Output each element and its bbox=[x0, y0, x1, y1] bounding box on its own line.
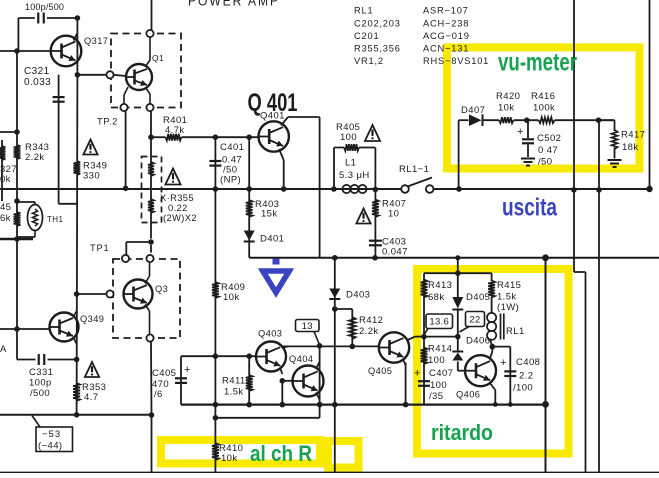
svg-text:1.5k: 1.5k bbox=[497, 292, 517, 303]
svg-text:(−44): (−44) bbox=[38, 441, 62, 452]
svg-text:0.047: 0.047 bbox=[382, 247, 408, 258]
svg-text:(1W): (1W) bbox=[497, 302, 519, 313]
svg-text:+: + bbox=[500, 357, 507, 369]
svg-text:R414: R414 bbox=[428, 344, 452, 355]
svg-text:+: + bbox=[184, 364, 191, 376]
svg-text:R411: R411 bbox=[222, 376, 246, 387]
svg-text:RHS−8VS101: RHS−8VS101 bbox=[423, 56, 489, 66]
svg-text:Q403: Q403 bbox=[258, 329, 282, 339]
svg-text:/50: /50 bbox=[538, 157, 552, 168]
svg-text:2.2k: 2.2k bbox=[359, 326, 379, 337]
svg-text:Q1: Q1 bbox=[152, 53, 164, 63]
svg-text:/6: /6 bbox=[154, 389, 163, 400]
svg-text:X·R355: X·R355 bbox=[160, 193, 194, 203]
svg-text:0.033: 0.033 bbox=[24, 77, 51, 88]
svg-text:45: 45 bbox=[0, 202, 11, 213]
svg-text:al ch R: al ch R bbox=[250, 441, 312, 466]
svg-text:10k: 10k bbox=[221, 453, 238, 464]
svg-text:R420: R420 bbox=[496, 91, 520, 102]
svg-text:13.6: 13.6 bbox=[429, 317, 449, 328]
svg-text:A: A bbox=[0, 344, 7, 355]
svg-text:/35: /35 bbox=[429, 391, 443, 402]
svg-text:Q317: Q317 bbox=[84, 36, 108, 46]
svg-text:vu-meter: vu-meter bbox=[498, 49, 577, 77]
svg-text:VR1,2: VR1,2 bbox=[354, 56, 384, 66]
svg-text:ritardo: ritardo bbox=[431, 420, 493, 445]
svg-text:13: 13 bbox=[302, 321, 313, 332]
svg-text:RL1: RL1 bbox=[354, 6, 373, 16]
svg-text:0k: 0k bbox=[0, 174, 11, 185]
svg-text:D405: D405 bbox=[466, 292, 490, 303]
svg-text:100: 100 bbox=[430, 380, 447, 391]
svg-text:C401: C401 bbox=[220, 142, 244, 153]
svg-text:/500: /500 bbox=[30, 388, 50, 399]
svg-text:5.3 μH: 5.3 μH bbox=[339, 170, 370, 181]
svg-text:0 47: 0 47 bbox=[538, 145, 558, 156]
svg-text:D407: D407 bbox=[461, 105, 485, 116]
svg-text:R415: R415 bbox=[497, 280, 521, 291]
svg-text:R355,356: R355,356 bbox=[354, 43, 401, 53]
svg-text:D406: D406 bbox=[466, 336, 490, 347]
svg-text:ACG−019: ACG−019 bbox=[423, 31, 470, 41]
svg-text:100: 100 bbox=[340, 132, 357, 143]
svg-text:10: 10 bbox=[388, 209, 399, 220]
svg-text:18k: 18k bbox=[622, 142, 639, 153]
svg-text:R417: R417 bbox=[621, 130, 645, 141]
svg-text:D403: D403 bbox=[346, 290, 370, 301]
svg-text:100p: 100p bbox=[29, 378, 52, 389]
svg-text:C502: C502 bbox=[537, 133, 561, 144]
svg-text:C202,203: C202,203 bbox=[354, 18, 401, 28]
svg-text:ACH−238: ACH−238 bbox=[423, 18, 469, 28]
svg-text:C407: C407 bbox=[429, 368, 453, 379]
svg-text:100: 100 bbox=[428, 355, 445, 366]
svg-text:TP1: TP1 bbox=[90, 243, 109, 253]
svg-text:RL1: RL1 bbox=[506, 326, 525, 337]
svg-text:2.2k: 2.2k bbox=[25, 152, 45, 163]
svg-text:Q401: Q401 bbox=[260, 111, 285, 122]
svg-text:0.22: 0.22 bbox=[168, 203, 188, 213]
svg-text:15k: 15k bbox=[261, 209, 278, 220]
svg-text:TH1: TH1 bbox=[47, 215, 63, 224]
svg-text:Q349: Q349 bbox=[80, 314, 104, 324]
svg-text:ACN−131: ACN−131 bbox=[423, 43, 469, 53]
svg-text:Q404: Q404 bbox=[289, 354, 313, 364]
svg-text:+: + bbox=[517, 126, 524, 138]
svg-text:C408: C408 bbox=[516, 357, 540, 368]
svg-text:4.7k: 4.7k bbox=[165, 125, 185, 136]
svg-text:Q406: Q406 bbox=[456, 390, 480, 400]
svg-text:R412: R412 bbox=[359, 315, 383, 326]
svg-text:ASR−107: ASR−107 bbox=[423, 6, 469, 16]
svg-text:uscita: uscita bbox=[502, 194, 558, 222]
svg-text:Q3: Q3 bbox=[155, 284, 168, 294]
svg-text:+: + bbox=[414, 368, 421, 380]
svg-text:2.2: 2.2 bbox=[519, 371, 533, 382]
svg-text:C405: C405 bbox=[152, 368, 176, 379]
svg-text:68k: 68k bbox=[428, 292, 445, 303]
svg-text:100k: 100k bbox=[533, 103, 555, 114]
svg-text:TP.2: TP.2 bbox=[97, 117, 118, 127]
svg-text:RL1−1: RL1−1 bbox=[399, 164, 429, 175]
svg-text:(2W)X2: (2W)X2 bbox=[163, 213, 197, 223]
svg-text:(NP): (NP) bbox=[220, 175, 241, 186]
svg-text:−53: −53 bbox=[42, 429, 61, 440]
svg-text:10k: 10k bbox=[498, 103, 515, 114]
svg-text:R416: R416 bbox=[531, 91, 555, 102]
svg-text:4.7: 4.7 bbox=[84, 392, 98, 403]
svg-text:Q405: Q405 bbox=[368, 366, 392, 376]
svg-text:POWER AMP: POWER AMP bbox=[188, 0, 280, 9]
svg-text:22: 22 bbox=[469, 314, 480, 325]
svg-text:10k: 10k bbox=[223, 292, 240, 303]
svg-text:R413: R413 bbox=[428, 280, 452, 291]
svg-text:L1: L1 bbox=[345, 158, 356, 169]
svg-text:/100: /100 bbox=[513, 383, 533, 394]
svg-text:D401: D401 bbox=[260, 234, 284, 245]
svg-text:6k: 6k bbox=[0, 213, 11, 224]
svg-text:C321: C321 bbox=[24, 66, 50, 77]
svg-text:330: 330 bbox=[83, 171, 100, 182]
svg-text:100p/500: 100p/500 bbox=[25, 2, 64, 12]
svg-text:1.5k: 1.5k bbox=[224, 387, 244, 398]
svg-text:C201: C201 bbox=[354, 31, 379, 41]
svg-text:C331: C331 bbox=[29, 367, 53, 378]
